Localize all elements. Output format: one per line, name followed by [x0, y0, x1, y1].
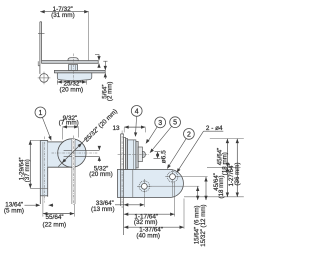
top view: slot tick on vertical plate [38, 32, 45, 34]
dim 5/32in sensor plate front thickness [98, 147, 100, 150]
svg-text:(18 mm): (18 mm) [218, 175, 225, 198]
right view: knob dome bulge [142, 151, 145, 157]
top view: dome nut above bracket plate [68, 58, 78, 61]
front view: white stem band over circle [72, 139, 75, 168]
balloon 2 [184, 129, 195, 140]
front view: vertical centerline [72, 136, 74, 206]
top view: small left tab of horizontal plate [37, 61, 39, 66]
top view: clamp body between plates [69, 65, 78, 71]
right view: clamp stack layer 3 wide blue body [128, 140, 136, 170]
svg-text:2: 2 [187, 131, 191, 138]
dim 5/64in 2mm sensor plate thickness [103, 60, 107, 62]
right view: hole A double circle [137, 185, 152, 187]
front view: horizontal centerline [52, 152, 98, 154]
top view: screw cross-section circle [38, 77, 51, 79]
svg-text:(13 mm): (13 mm) [91, 206, 115, 213]
front view: strip centerline [44, 137, 46, 203]
svg-text:(36 mm): (36 mm) [234, 162, 241, 185]
front view: cross line at strip for dim ref [30, 187, 47, 189]
svg-text:1: 1 [38, 110, 42, 117]
right view: plate centerline [121, 131, 123, 209]
front view: sensor plate tab right of circle [75, 149, 99, 151]
svg-text:(7 mm): (7 mm) [59, 119, 79, 126]
leader balloon 4 [136, 116, 137, 134]
balloon 4 [131, 106, 142, 117]
svg-text:15/32” (12 mm): 15/32” (12 mm) [200, 204, 207, 246]
right view: clamp stack layer 2 gray washer [126, 139, 128, 170]
right view: bend line inside plate [132, 169, 134, 197]
right view: hole B double circle [165, 176, 180, 178]
dim 13 stack width [123, 128, 125, 133]
svg-text:55/64”: 55/64” [46, 214, 64, 221]
front view: stem lines through circle [71, 139, 73, 204]
balloon 1 [35, 107, 46, 118]
front view: top ext line to left dim [30, 139, 40, 141]
dim 1-7/32in 31mm overall width [88, 12, 90, 61]
right view: clamp stack layer 5 hub [138, 147, 142, 162]
leader balloon 1 [42, 117, 50, 138]
top view: vertical plate edge-on [39, 22, 41, 74]
dim 25/32in 20mm circle diameter diagonal [58, 138, 87, 167]
svg-text:4: 4 [135, 108, 139, 115]
top view: bracket horizontal plate edge-on [42, 61, 99, 64]
dim 45/64in 18mm lower [226, 167, 228, 197]
dim 9/32in 7mm stem width [62, 128, 64, 140]
right view: clamp stack layer 1 thin white [124, 138, 126, 170]
right view: stack centerline [118, 154, 149, 156]
svg-text:(2 mm): (2 mm) [107, 82, 114, 102]
front view: sensor plate lines through circle [64, 149, 72, 151]
dim 1-29/64in 37mm height [29, 140, 31, 188]
right view: hole B centerline down [172, 184, 174, 198]
front view: horizontal leg face rect [48, 142, 76, 167]
svg-text:3: 3 [158, 120, 162, 127]
right view: hole A centerline down to dim [143, 194, 145, 207]
dim 15/32in 12mm hole B from bottom [179, 176, 208, 178]
svg-text:13: 13 [113, 125, 121, 132]
right view: horizontal plate with rounded end [118, 169, 184, 197]
dim 45/64in 18mm upper [226, 139, 228, 168]
top view: clamp stem centerline [72, 54, 74, 83]
dim 5/64in 2mm bracket plate thickness [95, 54, 99, 56]
balloon 5 [170, 117, 181, 128]
leader balloon 5 [151, 126, 171, 151]
dim 1-37/64in 40mm [183, 199, 185, 229]
svg-text:(37 mm): (37 mm) [24, 159, 31, 182]
dim 55/64in 22mm [73, 204, 75, 217]
svg-text:ø6.5: ø6.5 [160, 150, 167, 164]
svg-text:(32 mm): (32 mm) [134, 219, 158, 226]
balloon 3 [155, 117, 166, 128]
dim dia 6.5 knob dome [155, 151, 161, 153]
svg-text:(22 mm): (22 mm) [42, 221, 66, 228]
leader balloon 2 [168, 139, 186, 167]
right ext line mid [207, 166, 241, 168]
leader balloon 3 [148, 127, 158, 142]
right view: clamp stack layer 4 gray washer [136, 141, 138, 168]
right view: vertical plate edge-on lines [120, 134, 122, 206]
right ext line top [210, 138, 244, 140]
top view: sensor plate edge-on [54, 70, 105, 73]
svg-text:5: 5 [173, 120, 177, 127]
right view: inner line of blue body [133, 140, 135, 170]
svg-text:(20 mm): (20 mm) [89, 171, 113, 178]
svg-text:(5 mm): (5 mm) [4, 208, 24, 215]
top view: clamp knob disc below sensor plate [57, 73, 92, 81]
front view: strip inner bend line doubling as 55/64 ext [42, 142, 44, 217]
svg-text:(40 mm): (40 mm) [136, 232, 160, 239]
svg-text:(20 mm): (20 mm) [59, 87, 83, 94]
front view: knob circle [58, 139, 86, 167]
dim 1-17/64in 32mm [174, 182, 176, 217]
dim 25/32in 20mm knob width under top view [56, 80, 58, 85]
dim 1-27/64in 36mm total [236, 139, 238, 197]
right ext line bottom [184, 196, 244, 198]
svg-text:(31 mm): (31 mm) [51, 12, 75, 19]
front view: vertical strip plate [40, 140, 47, 195]
dim 15/64in 6mm hole A from bottom [150, 185, 199, 187]
